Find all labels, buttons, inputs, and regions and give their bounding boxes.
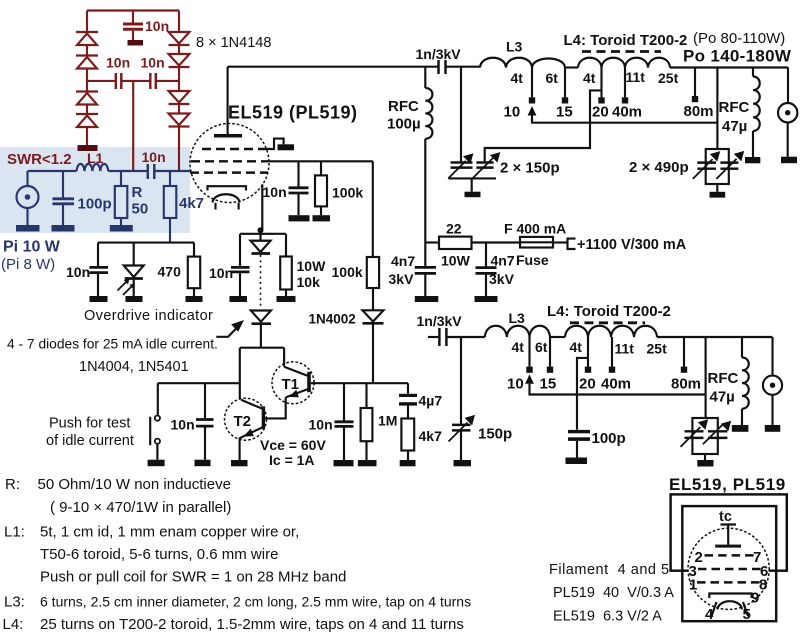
ground (test 10n) bbox=[195, 460, 211, 467]
svg-text:4k7: 4k7 bbox=[419, 428, 443, 444]
ground (RFC 47u upper) bbox=[745, 157, 760, 163]
connector output (lower) bbox=[763, 337, 782, 425]
svg-text:1: 1 bbox=[689, 577, 697, 594]
ground (4n7 left) bbox=[415, 296, 439, 302]
grid g1 control (dashed) bbox=[190, 171, 268, 173]
tap 40m (upper) bbox=[624, 68, 626, 98]
grid g2 screen (dashed) bbox=[191, 160, 268, 162]
svg-text:RFC: RFC bbox=[388, 98, 419, 115]
inductor L3 (upper) bbox=[480, 58, 532, 68]
svg-text:1N4002: 1N4002 bbox=[309, 312, 356, 327]
svg-text:Push for test: Push for test bbox=[49, 416, 130, 432]
resistor 10W 10k bbox=[285, 234, 287, 257]
choke RFC 47u (lower) bbox=[742, 337, 749, 425]
svg-text:25t: 25t bbox=[647, 341, 668, 357]
capacitor 2x150p bbox=[448, 158, 496, 192]
heater arch bbox=[718, 601, 743, 609]
svg-text:L4:: L4: bbox=[3, 616, 24, 633]
capacitor 10n (middle right) bbox=[150, 73, 156, 89]
svg-text:RFC: RFC bbox=[708, 370, 739, 387]
svg-text:Ic = 1A: Ic = 1A bbox=[269, 452, 315, 468]
arrow annotation bbox=[216, 328, 236, 337]
wire g3 to ground step bbox=[266, 139, 284, 149]
svg-text:( 9-10 × 470/1W in parallel): ( 9-10 × 470/1W in parallel) bbox=[50, 499, 231, 516]
resistor R 50 bbox=[120, 171, 122, 186]
svg-text:R: R bbox=[132, 184, 143, 201]
pin row 2-7 bbox=[705, 554, 754, 556]
svg-text:4 - 7 diodes for 25 mA idle cu: 4 - 7 diodes for 25 mA idle current. bbox=[7, 337, 218, 352]
capacitor 10n (overdrive) bbox=[97, 243, 99, 267]
svg-text:4t: 4t bbox=[511, 70, 524, 86]
wire bbox=[108, 170, 147, 172]
terminal squares upper taps bbox=[529, 97, 535, 103]
svg-text:4n7: 4n7 bbox=[391, 253, 415, 269]
wire drop to 490p bbox=[716, 68, 718, 150]
ground (470) bbox=[186, 296, 203, 302]
svg-text:4t: 4t bbox=[512, 339, 525, 355]
wire drop to 150p (lower) bbox=[460, 337, 462, 425]
svg-text:40m: 40m bbox=[601, 376, 631, 393]
svg-text:3kV: 3kV bbox=[489, 271, 515, 287]
svg-text:10n: 10n bbox=[263, 184, 287, 200]
capacitor 1n/3kV (lower) bbox=[428, 336, 438, 338]
svg-text:100µ: 100µ bbox=[387, 116, 421, 133]
tap 40m (lower) bbox=[611, 337, 613, 367]
node: overdrive clamp top bus (maroon) bbox=[87, 11, 179, 32]
resistor 100k (screen upper) bbox=[320, 161, 322, 175]
inductor L4 main bbox=[578, 58, 670, 68]
svg-text:80m: 80m bbox=[684, 103, 714, 120]
svg-text:100k: 100k bbox=[332, 264, 363, 280]
tap 10 (upper) bbox=[531, 68, 533, 98]
wire HT rail bbox=[425, 241, 439, 243]
svg-text:10n: 10n bbox=[141, 55, 165, 71]
svg-text:25t: 25t bbox=[658, 70, 679, 86]
svg-text:L3:: L3: bbox=[4, 594, 25, 611]
svg-text:10n: 10n bbox=[66, 264, 90, 280]
diode 1N4002 bbox=[363, 310, 384, 321]
cathode bracket bbox=[208, 186, 247, 209]
svg-text:47µ: 47µ bbox=[710, 389, 735, 406]
svg-text:50 Ohm/10 W non inductieve: 50 Ohm/10 W non inductieve bbox=[38, 476, 231, 493]
svg-text:4µ7: 4µ7 bbox=[419, 393, 443, 409]
wire input line bbox=[28, 170, 77, 172]
resistor 22 10W bbox=[439, 237, 472, 249]
ground (150p lower) bbox=[454, 460, 472, 466]
svg-text:10n: 10n bbox=[171, 417, 195, 433]
wire dotted (more diodes) bbox=[260, 255, 262, 309]
svg-text:Fuse: Fuse bbox=[516, 252, 549, 268]
wire drop to 150p bbox=[460, 67, 462, 163]
resistor 4k7 (base) bbox=[401, 419, 414, 451]
socket outer rect bbox=[671, 494, 787, 570]
capacitor 1n/3kV (upper) bbox=[439, 60, 446, 74]
ground (switch) bbox=[148, 460, 165, 467]
svg-text:5t, 1 cm id, 1 mm enam copper: 5t, 1 cm id, 1 mm enam copper wire or, bbox=[40, 524, 299, 541]
input network shaded background bbox=[0, 147, 190, 233]
wire base rail bbox=[311, 382, 408, 384]
svg-text:25 turns on T200-2 toroid, 1.5: 25 turns on T200-2 toroid, 1.5-2mm wire,… bbox=[40, 616, 464, 633]
ground (source) bbox=[16, 225, 40, 232]
toroid dash (lower) bbox=[570, 321, 645, 324]
wire anode lead bbox=[227, 67, 229, 134]
wire 10m band rail bbox=[532, 116, 717, 123]
svg-text:Pi 10 W: Pi 10 W bbox=[3, 239, 61, 256]
svg-text:EL519 (PL519): EL519 (PL519) bbox=[228, 103, 358, 123]
switch push button bbox=[157, 383, 159, 415]
anode plate bbox=[214, 134, 242, 138]
ground (g3) bbox=[278, 144, 295, 150]
svg-text:3kV: 3kV bbox=[389, 271, 415, 287]
svg-text:100p: 100p bbox=[592, 430, 626, 447]
capacitor 4n7 3kV (right) bbox=[485, 243, 487, 268]
svg-text:11t: 11t bbox=[615, 341, 635, 357]
ground (R50) bbox=[110, 225, 133, 232]
wire cathode lead bbox=[261, 184, 263, 230]
capacitor 4u7 bbox=[407, 383, 409, 394]
svg-text:80m: 80m bbox=[671, 376, 701, 393]
terminal +1100V bbox=[568, 239, 576, 249]
capacitor 10n (middle left) bbox=[116, 73, 122, 89]
tap 80m (upper) bbox=[694, 68, 696, 97]
svg-text:L3: L3 bbox=[506, 39, 523, 55]
capacitor 10n (grid series) bbox=[148, 164, 155, 179]
fuse F 400mA bbox=[520, 237, 553, 248]
inductor L1 bbox=[77, 164, 109, 171]
svg-text:20: 20 bbox=[579, 376, 596, 393]
tap 20 (lower) bbox=[587, 337, 589, 367]
tap 80m (lower) bbox=[683, 337, 685, 367]
wire 10m band rail (lower) bbox=[530, 384, 706, 395]
resistor 1M bbox=[365, 383, 367, 408]
ground (1M) bbox=[358, 460, 377, 466]
ground (output lower) bbox=[765, 425, 781, 432]
svg-text:EL519 6.3 V/2 A: EL519 6.3 V/2 A bbox=[553, 609, 662, 625]
svg-text:1n/3kV: 1n/3kV bbox=[416, 46, 462, 62]
socket circle bbox=[688, 528, 769, 609]
capacitor 100p bbox=[568, 430, 590, 433]
svg-text:Filament 4 and 5: Filament 4 and 5 bbox=[549, 562, 670, 578]
svg-text:T2: T2 bbox=[234, 413, 252, 430]
svg-text:20: 20 bbox=[592, 104, 609, 121]
tap 15 (lower) bbox=[549, 337, 551, 367]
svg-text:(Pi 8 W): (Pi 8 W) bbox=[1, 256, 55, 273]
heater lead 4 bbox=[712, 602, 717, 616]
svg-text:15: 15 bbox=[556, 104, 573, 121]
svg-text:6 turns, 2.5 cm inner diameter: 6 turns, 2.5 cm inner diameter, 2 cm lon… bbox=[40, 594, 471, 610]
svg-text:8: 8 bbox=[759, 577, 767, 594]
svg-text:10: 10 bbox=[504, 104, 521, 121]
svg-text:L3: L3 bbox=[509, 310, 526, 326]
capacitor 10n (clamp top) bbox=[123, 11, 143, 41]
tube EL519 envelope bbox=[190, 124, 269, 203]
capacitor 2x490p bbox=[693, 149, 739, 192]
socket inner rect bbox=[682, 506, 776, 621]
capacitor 4n7 3kV (left) bbox=[415, 266, 436, 269]
svg-text:Po 140-180W: Po 140-180W bbox=[683, 47, 792, 66]
svg-text:Overdrive indicator: Overdrive indicator bbox=[84, 308, 213, 324]
wire cathode rail bbox=[240, 233, 286, 235]
svg-text:6t: 6t bbox=[546, 70, 559, 86]
ground (left diode chain) bbox=[78, 145, 98, 151]
capacitor 10n (screen bypass) bbox=[297, 161, 299, 187]
wire output line bbox=[670, 66, 788, 68]
tap 15 (upper) bbox=[564, 68, 566, 98]
svg-text:22: 22 bbox=[446, 221, 462, 237]
ground (RFC lower) bbox=[732, 425, 749, 432]
wire top bus bbox=[87, 11, 179, 32]
svg-text:10W: 10W bbox=[297, 258, 327, 274]
wire bias to T1 jog bbox=[240, 347, 284, 349]
transistor T1 bbox=[265, 362, 314, 419]
svg-text:15: 15 bbox=[540, 376, 557, 393]
ground (490p pair) bbox=[710, 192, 726, 198]
svg-text:47µ: 47µ bbox=[722, 118, 747, 135]
svg-text:T1: T1 bbox=[282, 376, 300, 393]
capacitor 150p variable bbox=[452, 425, 471, 431]
heater lead 5 bbox=[743, 602, 748, 616]
resistor 4k7 bbox=[169, 171, 171, 186]
wire clamp centre tap down to grid line bbox=[132, 81, 134, 171]
svg-text:100p: 100p bbox=[78, 196, 112, 213]
diode chain left (4 of 8x1N4148) bbox=[76, 32, 98, 145]
svg-text:10n: 10n bbox=[209, 265, 233, 281]
inductor L4 6t (lower) bbox=[530, 326, 551, 337]
ground (100p) bbox=[566, 458, 588, 465]
svg-text:Push or pull coil for SWR = 1: Push or pull coil for SWR = 1 on 28 MHz … bbox=[40, 569, 346, 586]
wire clamp middle bus with series caps (maroon) bbox=[87, 73, 179, 171]
ground (overdrive 10n) bbox=[90, 296, 108, 302]
svg-text:10n: 10n bbox=[145, 18, 169, 34]
svg-text:of idle current: of idle current bbox=[46, 433, 134, 449]
choke RFC 100u bbox=[424, 67, 426, 88]
ground (10W 10k) bbox=[277, 296, 296, 302]
svg-text:tc: tc bbox=[719, 509, 732, 525]
svg-text:10n: 10n bbox=[309, 417, 333, 433]
svg-text:10k: 10k bbox=[297, 274, 321, 290]
wire screen column down bbox=[372, 161, 374, 257]
capacitor 10n (base) bbox=[343, 383, 345, 421]
svg-text:10n: 10n bbox=[142, 149, 166, 165]
wire source to ground bbox=[26, 208, 28, 225]
pin row 3-6 bbox=[698, 568, 761, 570]
wire drop to cap pair (lower) bbox=[705, 337, 707, 418]
svg-text:4k7: 4k7 bbox=[179, 195, 204, 212]
ground (base 10n) bbox=[334, 460, 354, 466]
capacitor 10n (cathode) bbox=[239, 234, 241, 267]
svg-text:F 400 mA: F 400 mA bbox=[504, 221, 566, 237]
ground (100p) bbox=[52, 225, 75, 232]
ground (cathode 10n) bbox=[230, 296, 248, 302]
svg-text:T50-6 toroid, 5-6 turns, 0.6 m: T50-6 toroid, 5-6 turns, 0.6 mm wire bbox=[40, 546, 278, 563]
ground (cap pair lower) bbox=[697, 460, 713, 467]
svg-text:L1:: L1: bbox=[4, 524, 25, 541]
wire anode top bus bbox=[228, 66, 438, 68]
node cathode junction bbox=[258, 227, 264, 233]
capacitor pair (lower) bbox=[681, 418, 728, 460]
tap 10 (lower) bbox=[528, 337, 530, 367]
svg-text:40m: 40m bbox=[612, 104, 642, 121]
wire output line (lower) bbox=[657, 336, 773, 338]
ground (clamp top cap) bbox=[128, 40, 144, 46]
svg-text:L4: Toroid T200-2: L4: Toroid T200-2 bbox=[564, 32, 688, 49]
ground (150p pair) bbox=[465, 192, 481, 198]
svg-text:50: 50 bbox=[132, 201, 149, 218]
svg-text:470: 470 bbox=[158, 264, 182, 280]
transistor T2 bbox=[225, 398, 267, 460]
svg-text:150p: 150p bbox=[478, 426, 512, 443]
ground (screen 10n) bbox=[289, 215, 310, 221]
diode chain right (4 of 8x1N4148) bbox=[169, 32, 190, 171]
svg-text:R:: R: bbox=[5, 476, 20, 493]
ground (output upper) bbox=[781, 157, 797, 164]
resistor 470 bbox=[193, 243, 195, 257]
wire overdrive rail bbox=[98, 242, 194, 244]
connector output (upper) bbox=[778, 68, 797, 157]
ground (4n7 right) bbox=[475, 296, 498, 302]
resistor 100k (bleeder) bbox=[367, 257, 379, 288]
svg-text:L4: Toroid T200-2: L4: Toroid T200-2 bbox=[547, 303, 671, 320]
svg-text:10: 10 bbox=[507, 376, 524, 393]
svg-text:11t: 11t bbox=[626, 69, 646, 85]
heater arch bbox=[213, 194, 240, 202]
svg-text:+1100 V/300 mA: +1100 V/300 mA bbox=[577, 237, 687, 253]
svg-text:2 × 490p: 2 × 490p bbox=[629, 159, 689, 176]
svg-text:4n7: 4n7 bbox=[491, 253, 515, 269]
svg-text:EL519, PL519: EL519, PL519 bbox=[669, 475, 786, 494]
svg-text:Vce = 60V: Vce = 60V bbox=[260, 437, 326, 453]
choke RFC 47u (upper) bbox=[753, 68, 760, 158]
svg-text:SWR<1.2: SWR<1.2 bbox=[7, 151, 72, 168]
diode bias (last) bbox=[251, 311, 271, 322]
svg-text:4t: 4t bbox=[570, 339, 583, 355]
svg-text:10n: 10n bbox=[106, 55, 130, 71]
svg-text:1n/3kV: 1n/3kV bbox=[417, 313, 463, 329]
svg-text:8 × 1N4148: 8 × 1N4148 bbox=[196, 35, 271, 51]
source Pi 10W bbox=[17, 186, 39, 208]
capacitor 100p bbox=[62, 171, 64, 198]
svg-text:PL519 40 V/0.3 A: PL519 40 V/0.3 A bbox=[553, 585, 674, 601]
wire screen rail bbox=[268, 160, 373, 162]
wire test rail bbox=[158, 382, 240, 384]
diode bias (first) bbox=[259, 230, 261, 241]
toroid dash (upper) bbox=[582, 50, 661, 53]
heater bracket bbox=[709, 594, 751, 599]
svg-text:4t: 4t bbox=[583, 70, 596, 86]
svg-text:6t: 6t bbox=[535, 339, 548, 355]
terminal squares lower taps bbox=[526, 367, 532, 373]
capacitor 10n (test) bbox=[204, 383, 206, 419]
inductor L4 6t section bbox=[532, 59, 565, 68]
inductor L4 main (lower) bbox=[565, 326, 657, 337]
ground (T2 emitter) bbox=[231, 460, 248, 466]
inductor L3 (lower) bbox=[485, 326, 530, 337]
tap 20 (upper) bbox=[600, 68, 602, 98]
svg-text:1M: 1M bbox=[378, 413, 397, 429]
pin row 1-8 bbox=[697, 581, 760, 583]
svg-text:2 × 150p: 2 × 150p bbox=[500, 160, 560, 177]
wire source to line bbox=[26, 171, 28, 186]
svg-text:1N4004, 1N5401: 1N4004, 1N5401 bbox=[79, 359, 189, 375]
svg-text:(Po 80-110W): (Po 80-110W) bbox=[693, 30, 785, 47]
svg-text:100k: 100k bbox=[332, 185, 363, 201]
ground (screen 100k) bbox=[313, 215, 331, 221]
LED overdrive bbox=[133, 243, 135, 266]
grid g3 (dashed) bbox=[202, 148, 266, 150]
ground (LED) bbox=[126, 296, 143, 302]
svg-text:10W: 10W bbox=[441, 253, 471, 269]
ground (4k7 base) bbox=[400, 460, 416, 466]
svg-text:RFC: RFC bbox=[719, 99, 750, 116]
